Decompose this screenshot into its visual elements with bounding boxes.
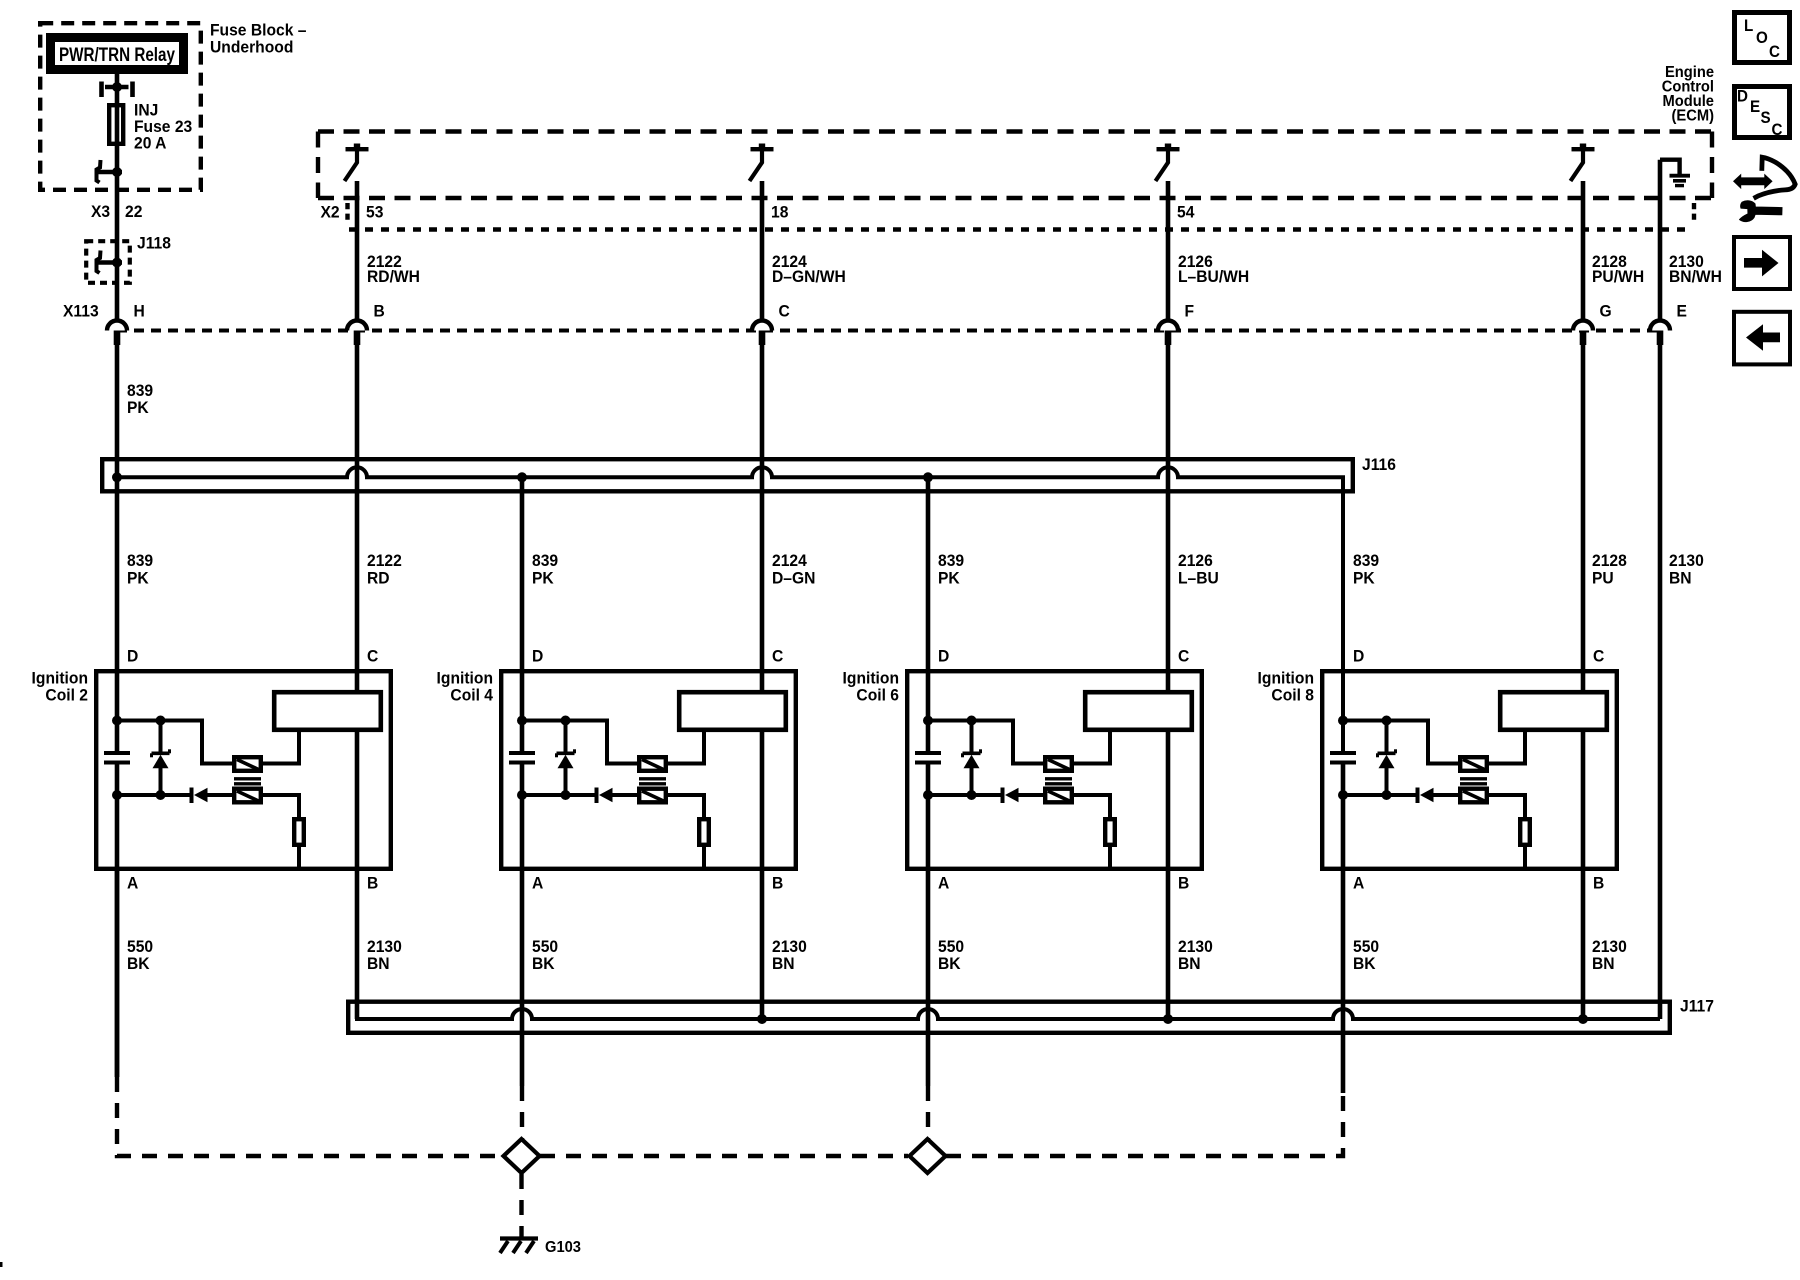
icon left arrow box — [1734, 312, 1790, 365]
coil 4 internal wire (top) — [522, 721, 637, 764]
label X3 22 — [91, 203, 142, 222]
coil 8 wire switch to winding — [1489, 732, 1525, 764]
coil 6 diode — [1003, 788, 1044, 804]
ignition coil 2 box — [96, 671, 391, 869]
coil 2 pin labels — [127, 647, 378, 893]
relay contact symbol — [102, 82, 133, 98]
label 839 PK (upper) — [127, 382, 153, 418]
svg-text:2130: 2130 — [1669, 552, 1704, 571]
coil 4 wire switch to resistor — [668, 795, 704, 817]
label 2130 BN (coil4) — [772, 938, 807, 974]
coil 6 wire switch to winding — [1074, 732, 1110, 764]
coil 8 pin labels — [1353, 647, 1604, 893]
coil 2 diode — [192, 788, 233, 804]
svg-text:2130: 2130 — [772, 938, 807, 957]
coil 6 internal wire (bottom) — [928, 793, 1001, 797]
label 839 PK (coil4) — [532, 552, 558, 588]
ground G103 — [500, 1239, 538, 1254]
ECM driver pin 18 — [750, 144, 774, 182]
wire 550 BK (coil4 A) — [520, 763, 525, 1087]
connector X2 left bracket — [345, 203, 349, 224]
coil 8 isolation barrier — [1460, 779, 1487, 784]
connector X113 pin B — [347, 321, 367, 346]
svg-text:E: E — [1750, 98, 1760, 116]
svg-text:X2: X2 — [321, 203, 340, 222]
svg-text:PK: PK — [127, 399, 149, 418]
in-line connector terminal (fuse block exit) — [97, 160, 123, 183]
coil 8 solid-state switch (lower) — [1460, 789, 1487, 803]
coil 8 solid-state switch (upper) — [1460, 757, 1487, 771]
coil 4 isolation barrier — [639, 779, 666, 784]
splice pack J116 bus wire — [112, 467, 1343, 753]
coil 2 wire switch to winding — [263, 732, 299, 764]
wire 2130 BN/WH (ECM ground to X113 E) — [1658, 160, 1663, 320]
label Ignition Coil 6 — [843, 669, 899, 705]
connector X113 pin C — [752, 321, 772, 346]
ECM driver pin 54 — [1156, 144, 1180, 182]
coil 4 capacitor — [509, 753, 535, 795]
wire 2130 BN (coil4 B to J117) — [760, 732, 765, 1019]
svg-text:C: C — [1772, 121, 1783, 139]
label pin G — [1600, 302, 1612, 321]
wire 550 BK (coil6 A) — [926, 763, 931, 1087]
icon navigation arrows and wrench — [1733, 157, 1795, 221]
coil 2 primary winding box — [274, 692, 381, 730]
coil 6 solid-state switch (upper) — [1045, 757, 1072, 771]
svg-text:2126: 2126 — [1178, 552, 1213, 571]
svg-text:839: 839 — [127, 382, 153, 401]
coil 8 internal wire (bottom) — [1343, 793, 1416, 797]
label 2130 BN (coil8) — [1592, 938, 1627, 974]
coil 4 internal wire (bottom) — [522, 793, 595, 797]
svg-text:BN: BN — [772, 955, 795, 974]
svg-text:BN/WH: BN/WH — [1669, 268, 1722, 287]
coil 2 solid-state switch (lower) — [234, 789, 261, 803]
coil 4 junction dots — [517, 716, 571, 801]
svg-text:550: 550 — [127, 938, 153, 957]
svg-text:L–BU/WH: L–BU/WH — [1178, 268, 1249, 287]
wire dashed ground net (right run) — [946, 1093, 1343, 1156]
svg-text:PK: PK — [1353, 569, 1375, 588]
connector X113 pin F — [1158, 321, 1178, 346]
label J117 — [1680, 997, 1714, 1016]
connector X113 dashed line — [117, 329, 1660, 333]
svg-text:D–GN: D–GN — [772, 569, 815, 588]
label pin B — [374, 302, 385, 321]
svg-text:C: C — [1178, 647, 1189, 666]
coil 6 zener diode — [963, 721, 981, 796]
coil 6 junction dots — [923, 716, 977, 801]
label pin 18 — [771, 203, 788, 222]
svg-text:BK: BK — [127, 955, 150, 974]
svg-text:E: E — [1677, 302, 1688, 321]
label 2122 RD — [367, 552, 402, 588]
splice diamond (right) — [910, 1139, 946, 1173]
label Ignition Coil 8 — [1258, 669, 1314, 705]
wire dashed ground net (left run) — [117, 1077, 502, 1156]
coil 4 pin labels — [532, 647, 783, 893]
label Engine Control Module (ECM) — [1662, 63, 1715, 124]
ECM internal ground symbol — [1660, 160, 1690, 186]
svg-text:C: C — [1769, 43, 1780, 61]
svg-text:B: B — [1593, 874, 1604, 893]
coil 4 solid-state switch (lower) — [639, 789, 666, 803]
connector X113 pin H — [107, 321, 127, 346]
svg-text:550: 550 — [532, 938, 558, 957]
label Fuse Block - Underhood — [210, 21, 306, 57]
svg-text:L–BU: L–BU — [1178, 569, 1219, 588]
label 2130 BN (coil2) — [367, 938, 402, 974]
svg-text:C: C — [1593, 647, 1604, 666]
wire 2126 L-BU (X113 F to coil6 C) — [1166, 345, 1171, 690]
svg-text:RD/WH: RD/WH — [367, 268, 420, 287]
svg-text:X113: X113 — [63, 302, 99, 321]
svg-text:Coil 2: Coil 2 — [45, 686, 88, 705]
splice diamond (G103 tap) — [504, 1139, 540, 1173]
svg-text:PK: PK — [938, 569, 960, 588]
connector X2 dotted line — [349, 227, 1692, 231]
svg-text:Coil 6: Coil 6 — [856, 686, 899, 705]
svg-text:2128: 2128 — [1592, 552, 1627, 571]
label INJ Fuse 23 20 A — [134, 101, 192, 153]
svg-text:2122: 2122 — [367, 552, 402, 571]
svg-text:54: 54 — [1177, 203, 1194, 222]
svg-text:839: 839 — [127, 552, 153, 571]
label G103 — [545, 1238, 581, 1256]
label 2130 BN/WH — [1669, 253, 1722, 287]
svg-text:S: S — [1761, 109, 1771, 127]
svg-text:2130: 2130 — [367, 938, 402, 957]
svg-text:H: H — [134, 302, 145, 321]
ECM (engine control module) dashed box — [318, 132, 1712, 199]
coil 2 capacitor — [104, 753, 130, 795]
coil 2 internal wire (bottom) — [117, 793, 190, 797]
coil 2 zener diode — [152, 721, 170, 796]
svg-text:839: 839 — [938, 552, 964, 571]
svg-text:D: D — [1353, 647, 1364, 666]
svg-text:BK: BK — [532, 955, 555, 974]
label 839 PK (coil8) — [1353, 552, 1379, 588]
svg-text:D: D — [532, 647, 543, 666]
svg-text:C: C — [367, 647, 378, 666]
label pin C — [779, 302, 790, 321]
relay PWR/TRN Relay (bold box) — [51, 38, 184, 70]
wire 2122 RD (X113 B to coil2 C) — [355, 345, 360, 690]
label Ignition Coil 4 — [437, 669, 493, 705]
svg-text:BN: BN — [1178, 955, 1201, 974]
wire relay to connector H — [115, 74, 120, 319]
svg-text:F: F — [1185, 302, 1195, 321]
label pin F — [1185, 302, 1195, 321]
artifact speck (bottom left) — [0, 1262, 3, 1267]
svg-text:BN: BN — [1592, 955, 1615, 974]
coil 4 zener diode — [557, 721, 575, 796]
fuse INJ Fuse 23 20 A — [109, 105, 123, 144]
ignition coil 6 box — [907, 671, 1202, 869]
svg-text:G103: G103 — [545, 1238, 581, 1256]
coil 8 diode — [1418, 788, 1459, 804]
svg-text:2124: 2124 — [772, 552, 807, 571]
splice J118 (dashed box) — [86, 241, 130, 283]
coil 8 wire switch to resistor — [1489, 795, 1525, 817]
label pin 54 — [1177, 203, 1194, 222]
coil 6 primary winding box — [1085, 692, 1192, 730]
coil 6 wire switch to resistor — [1074, 795, 1110, 817]
label 2122 RD/WH — [367, 253, 420, 287]
svg-text:2130: 2130 — [1178, 938, 1213, 957]
wire 550 BK (coil8 A) — [1341, 763, 1346, 1094]
coil 2 internal wire (top) — [117, 721, 232, 764]
svg-text:18: 18 — [771, 203, 788, 222]
coil 4 diode — [597, 788, 638, 804]
coil 2 isolation barrier — [234, 779, 261, 784]
svg-text:839: 839 — [1353, 552, 1379, 571]
label 550 BK (coil4) — [532, 938, 558, 974]
label X2 — [321, 203, 340, 222]
wire 2130 BN (coil2 B to J117) — [355, 732, 360, 1019]
svg-text:B: B — [772, 874, 783, 893]
coil 8 internal wire (top) — [1343, 721, 1458, 764]
wire 2124 D-GN (X113 C to coil4 C) — [760, 345, 765, 690]
coil 4 resistor — [699, 819, 709, 869]
splice pack J117 bus wire — [357, 869, 1660, 1024]
connector X2 right bracket — [1692, 203, 1696, 224]
svg-text:BN: BN — [1669, 569, 1692, 588]
label pin E — [1677, 302, 1688, 321]
coil 6 capacitor — [915, 753, 941, 795]
connector X113 pin E — [1650, 321, 1670, 346]
wire 2128 PU/WH (ECM to X113 G) — [1581, 181, 1586, 320]
coil 8 zener diode — [1378, 721, 1396, 796]
coil 8 primary winding box — [1500, 692, 1607, 730]
svg-text:53: 53 — [366, 203, 383, 222]
label Ignition Coil 2 — [32, 669, 88, 705]
svg-text:Ignition: Ignition — [437, 669, 493, 688]
wire 839 PK (X113 H to J116) — [115, 345, 120, 753]
coil 8 capacitor — [1330, 753, 1356, 795]
wire dashed ground net (mid run) — [540, 1154, 908, 1158]
svg-text:B: B — [374, 302, 385, 321]
coil 2 junction dots — [112, 716, 166, 801]
coil 4 wire switch to winding — [668, 732, 704, 764]
wire 2122 RD/WH (ECM 53 to X113 B) — [355, 181, 360, 320]
svg-text:PWR/TRN Relay: PWR/TRN Relay — [59, 45, 175, 66]
splice pack J116 box — [102, 459, 1353, 491]
svg-text:BK: BK — [938, 955, 961, 974]
wire 2124 D-GN/WH (ECM 18 to X113 C) — [760, 181, 765, 320]
icon box DESC — [1735, 87, 1790, 140]
label 2130 BN (coil6) — [1178, 938, 1213, 974]
wire 550 BK (coil2 A to ground net) — [115, 763, 120, 1078]
coil 6 solid-state switch (lower) — [1045, 789, 1072, 803]
icon box LOC — [1735, 13, 1790, 63]
svg-text:D: D — [938, 647, 949, 666]
label pin 53 — [366, 203, 383, 222]
label J118 — [137, 234, 171, 253]
label 2128 PU/WH — [1592, 253, 1644, 287]
coil 2 solid-state switch (upper) — [234, 757, 261, 771]
svg-text:A: A — [532, 874, 543, 893]
coil 6 pin labels — [938, 647, 1189, 893]
wire 2130 BN (coil6 B to J117) — [1166, 732, 1171, 1019]
svg-text:C: C — [779, 302, 790, 321]
wire dashed coil4 drop — [520, 1086, 524, 1139]
svg-text:RD: RD — [367, 569, 390, 588]
wire dashed diamond to G103 — [519, 1174, 523, 1237]
svg-text:A: A — [1353, 874, 1364, 893]
coil 8 resistor — [1520, 819, 1530, 869]
label 839 PK (coil2) — [127, 552, 153, 588]
svg-text:550: 550 — [938, 938, 964, 957]
svg-text:Ignition: Ignition — [843, 669, 899, 688]
svg-text:Underhood: Underhood — [210, 38, 293, 57]
svg-text:PK: PK — [532, 569, 554, 588]
svg-text:J116: J116 — [1362, 456, 1396, 475]
svg-text:B: B — [367, 874, 378, 893]
svg-text:PK: PK — [127, 569, 149, 588]
coil 8 junction dots — [1338, 716, 1392, 801]
svg-text:Coil 8: Coil 8 — [1271, 686, 1314, 705]
svg-text:BK: BK — [1353, 955, 1376, 974]
label 839 PK (coil6) — [938, 552, 964, 588]
svg-text:839: 839 — [532, 552, 558, 571]
ignition coil 8 box — [1322, 671, 1617, 869]
connector X113 pin G — [1573, 321, 1593, 346]
svg-text:PU: PU — [1592, 569, 1614, 588]
svg-text:D–GN/WH: D–GN/WH — [772, 268, 846, 287]
label 2124 D-GN — [772, 552, 815, 588]
coil 4 solid-state switch (upper) — [639, 757, 666, 771]
wire 839 PK (J116 to coil6 D) — [926, 477, 931, 753]
wire 839 PK (J116 to coil4 D) — [520, 477, 525, 753]
svg-text:J118: J118 — [137, 234, 171, 253]
svg-text:L: L — [1744, 18, 1754, 36]
label 550 BK (coil2) — [127, 938, 153, 974]
ECM driver pin 53 — [345, 144, 369, 182]
label 2126 L-BU — [1178, 552, 1219, 588]
coil 6 internal wire (top) — [928, 721, 1043, 764]
label 2126 L-BU/WH — [1178, 253, 1249, 287]
coil 6 isolation barrier — [1045, 779, 1072, 784]
svg-text:22: 22 — [125, 203, 142, 222]
svg-text:Ignition: Ignition — [1258, 669, 1314, 688]
svg-text:Coil 4: Coil 4 — [450, 686, 493, 705]
svg-text:Fuse Block –: Fuse Block – — [210, 21, 306, 40]
svg-text:G: G — [1600, 302, 1612, 321]
svg-text:C: C — [772, 647, 783, 666]
label 550 BK (coil8) — [1353, 938, 1379, 974]
svg-text:20 A: 20 A — [134, 134, 167, 153]
label 2130 BN (right) — [1669, 552, 1704, 588]
svg-text:(ECM): (ECM) — [1672, 107, 1714, 125]
svg-text:D: D — [127, 647, 138, 666]
svg-text:A: A — [938, 874, 949, 893]
wire 2126 L-BU/WH (ECM 54 to X113 F) — [1166, 181, 1171, 320]
wire 2130 BN (X113 E to J117) — [1658, 345, 1663, 1019]
coil 6 resistor — [1105, 819, 1115, 869]
fuse block - underhood (dashed box) — [40, 23, 201, 190]
svg-text:550: 550 — [1353, 938, 1379, 957]
label J116 — [1362, 456, 1396, 475]
svg-text:B: B — [1178, 874, 1189, 893]
svg-text:A: A — [127, 874, 138, 893]
icon right arrow box — [1734, 237, 1790, 289]
in-line connector terminal J118 — [97, 251, 123, 274]
label 550 BK (coil6) — [938, 938, 964, 974]
wire 2130 BN (coil8 B to J117) — [1581, 732, 1586, 1019]
label 2124 D-GN/WH — [772, 253, 846, 287]
coil 2 wire switch to resistor — [263, 795, 299, 817]
splice pack J117 box — [348, 1002, 1670, 1033]
ECM driver pin G — [1571, 144, 1595, 182]
svg-text:BN: BN — [367, 955, 390, 974]
wire 2128 PU (X113 G to coil8 C) — [1581, 345, 1586, 690]
label X113 H — [63, 302, 145, 321]
ignition coil 4 box — [501, 671, 796, 869]
wire dashed coil6 drop — [926, 1086, 930, 1139]
coil 4 primary winding box — [679, 692, 786, 730]
svg-text:2130: 2130 — [1592, 938, 1627, 957]
svg-text:O: O — [1756, 30, 1768, 48]
coil 2 resistor — [294, 819, 304, 869]
svg-text:J117: J117 — [1680, 997, 1714, 1016]
label 2128 PU — [1592, 552, 1627, 588]
svg-text:PU/WH: PU/WH — [1592, 268, 1644, 287]
svg-text:X3: X3 — [91, 203, 110, 222]
svg-text:D: D — [1737, 88, 1748, 106]
svg-text:Ignition: Ignition — [32, 669, 88, 688]
